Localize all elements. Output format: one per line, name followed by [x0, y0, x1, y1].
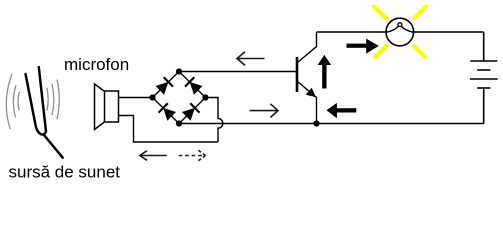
transistor Q1 emitter: [298, 82, 317, 124]
diode D2 (bottom node to right node): [174, 93, 210, 128]
wire: top rail (collector to battery): [317, 31, 484, 33]
sound waves right: [47, 80, 59, 120]
lamp L1: [386, 18, 414, 46]
light rays: [374, 7, 426, 58]
node dot: bridge left: [149, 94, 155, 100]
thin arrow right (middle): [250, 104, 278, 118]
wire: bridge top node to transistor base: [179, 71, 297, 73]
wire: mic bottom lead loop: [119, 116, 219, 143]
bold arrow up (collector current): [318, 55, 332, 89]
sound waves left: [6, 74, 19, 129]
node dot: bridge right: [202, 94, 208, 100]
tuning fork (sound source): [26, 67, 63, 158]
thin arrow left (above base wire): [237, 52, 265, 66]
transistor Q1 base bar: [296, 57, 299, 92]
thin arrow left (bottom, solid): [140, 151, 167, 161]
svg-text:sursă de sunet: sursă de sunet: [9, 163, 121, 182]
thin arrow right (bottom, dashed): [179, 150, 206, 162]
wire: right vertical with hop over bottom rail: [206, 98, 223, 143]
diode D3 (bottom node to left node): [148, 93, 184, 128]
battery B1: [470, 32, 498, 124]
bold arrow right (to lamp): [347, 39, 379, 54]
bold arrow left (bottom rail): [327, 103, 357, 118]
transistor Q1 collector: [298, 32, 317, 63]
node dot: bridge top: [176, 68, 182, 74]
diode D1 (left node to top node): [148, 67, 184, 102]
wire: mic top lead to bridge left node: [119, 97, 153, 99]
wire: bottom rail (bridge bottom node to battery): [179, 123, 484, 125]
microphone (speaker symbol): [95, 84, 119, 130]
junction dot (emitter to bottom rail): [313, 120, 319, 126]
svg-text:microfon: microfon: [64, 55, 129, 74]
node dot: bridge bottom: [176, 120, 182, 126]
diode D4 (right node to top node): [174, 67, 210, 102]
